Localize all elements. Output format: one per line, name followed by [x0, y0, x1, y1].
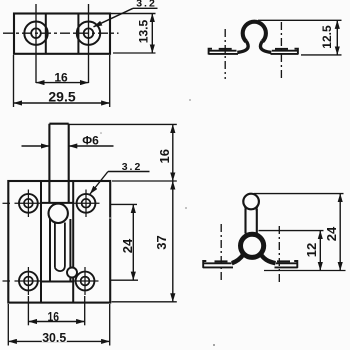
body left flange bottom	[203, 266, 233, 268]
dimension 29.5 (overall width)	[14, 102, 110, 104]
body left flange countersink mark	[215, 260, 228, 262]
right flange top line	[272, 50, 298, 52]
keeper hole 2 inner	[84, 28, 94, 38]
body right flange countersink mark	[277, 260, 290, 262]
body right hole centerline	[278, 226, 280, 284]
svg-text:12.5: 12.5	[320, 25, 334, 49]
hole BL crosshair vertical	[27, 267, 29, 295]
right flange end lip	[295, 49, 298, 55]
top holes centerline stub left	[3, 202, 11, 204]
guide slot left edge	[54, 223, 56, 268]
guide slot right edge	[64, 223, 66, 267]
extension line top for 12.5	[258, 19, 342, 21]
scan noise dots	[109, 217, 111, 219]
screw hole TL outer	[19, 194, 38, 213]
omega ring (bolt cross-section in guide)	[241, 234, 264, 257]
bolt pin circle	[67, 268, 77, 278]
dimension 16 (stem height)	[172, 124, 174, 181]
left flange countersink mark	[219, 48, 232, 50]
extension line plate left down	[7, 304, 9, 346]
extension line stem base	[259, 230, 324, 232]
svg-text:16: 16	[157, 149, 172, 163]
svg-text:13.5: 13.5	[137, 19, 151, 43]
horizontal centerline	[3, 32, 119, 34]
knob head circle	[243, 194, 259, 210]
extension line hole BR down	[84, 296, 86, 325]
omega right leg	[260, 254, 275, 264]
screw hole BL outer	[19, 272, 38, 291]
dimension 16 (hole spacing)	[36, 82, 89, 84]
bolt bottom edge	[41, 280, 73, 282]
keeper hole 1 inner	[31, 28, 41, 38]
bottom holes centerline stub left	[3, 280, 11, 282]
extension line right edge	[109, 55, 111, 107]
hole 2 vertical centerline	[88, 4, 90, 83]
3.2 underline	[108, 171, 150, 173]
svg-text:37: 37	[154, 235, 169, 249]
knob stem right edge	[256, 209, 258, 234]
hole BL crosshair horizontal	[15, 280, 41, 282]
knob circle	[49, 204, 68, 223]
svg-text:16: 16	[54, 71, 68, 85]
3.2 leader arrow	[90, 172, 108, 195]
dimension 13.5 (plate height)	[151, 14, 153, 54]
right flange countersink mark	[275, 48, 288, 50]
channel right edge	[72, 181, 74, 303]
right flange bottom line	[271, 53, 299, 55]
body plate outline	[8, 181, 110, 303]
keeper plate outline	[14, 14, 110, 54]
svg-text:12: 12	[304, 243, 319, 257]
hole BR crosshair vertical	[84, 267, 86, 295]
dimension phi6 right arrow	[69, 145, 114, 147]
svg-text:30.5: 30.5	[42, 330, 66, 345]
svg-text:Φ6: Φ6	[82, 133, 99, 147]
channel left edge	[40, 181, 42, 303]
extension line knob top	[254, 193, 344, 195]
bolt body left edge	[49, 219, 51, 282]
keeper bridge left edge	[45, 14, 47, 54]
screw hole TR inner	[82, 199, 91, 208]
extension line bottom holes right	[111, 279, 138, 281]
hole BR crosshair horizontal	[74, 280, 99, 282]
keeper bridge right edge	[77, 14, 79, 54]
screw hole TL inner	[24, 199, 33, 208]
extension line top for 13.5	[110, 13, 156, 15]
body right flange lip	[294, 261, 297, 268]
body right flange top	[276, 262, 298, 264]
bolt stem right edge	[68, 124, 70, 203]
keeper bump inner contour	[237, 41, 248, 52]
dimension 24 (knob height)	[339, 194, 341, 271]
extension line flange bottom right	[264, 270, 346, 272]
screw hole BR inner	[81, 277, 90, 286]
channel opening top edge	[41, 202, 73, 204]
keeper bump outer contour	[243, 22, 266, 42]
3.2 underline	[133, 7, 158, 9]
keeper left hole centerline	[224, 29, 226, 79]
extension line bottom for 13.5	[113, 52, 156, 54]
left flange end lip	[209, 49, 212, 55]
left flange bottom line	[209, 53, 239, 55]
dimension 12 (stem base height)	[319, 231, 321, 271]
knob neck taper right	[257, 205, 258, 210]
body right flange bottom	[275, 266, 298, 268]
knob neck taper left	[244, 205, 245, 210]
guide slot bottom edge	[55, 267, 65, 272]
svg-text:24: 24	[324, 226, 339, 241]
dimension phi6 left arrow	[22, 145, 50, 147]
svg-text:16: 16	[48, 309, 60, 324]
omega left leg	[232, 254, 244, 264]
extension line stem top	[69, 123, 177, 125]
dimension 12.5 (keeper height)	[336, 20, 338, 55]
body left flange top	[203, 262, 232, 264]
hole 1 vertical centerline	[35, 4, 37, 83]
bolt body right edge	[69, 219, 71, 282]
extension line left edge	[13, 55, 15, 107]
dimension 37 (body height)	[172, 181, 174, 302]
svg-text:24: 24	[120, 238, 135, 253]
body left hole centerline	[220, 224, 222, 283]
extension line top holes right	[111, 203, 137, 205]
3.2 leader arrow	[94, 8, 134, 27]
extension line plate bottom right	[112, 301, 177, 303]
hole TL crosshair vertical	[27, 190, 29, 218]
left flange top line	[209, 50, 237, 52]
knob stem left edge	[244, 209, 246, 234]
screw hole BL inner	[24, 277, 33, 286]
extension line bottom for 12.5	[301, 54, 342, 56]
bolt stem top edge	[49, 123, 68, 125]
bolt stem left edge	[48, 124, 50, 203]
body left flange lip	[203, 261, 206, 268]
dimension 16 (hole spacing horizontal)	[28, 321, 84, 323]
keeper hole 2 outer	[77, 22, 100, 45]
dimension 30.5 (body width)	[8, 340, 109, 342]
hole TR crosshair vertical	[85, 190, 87, 218]
keeper right hole centerline	[280, 22, 282, 81]
hole TL crosshair horizontal	[15, 202, 41, 204]
dimension 24 (hole spacing vertical)	[132, 204, 134, 280]
screw hole BR outer	[76, 272, 95, 291]
extension line plate top right	[112, 180, 177, 182]
svg-text:29.5: 29.5	[48, 88, 75, 104]
extension line plate right down	[109, 304, 111, 346]
extension line hole BL down	[27, 296, 29, 325]
screw hole TR outer	[77, 194, 96, 213]
keeper hole 1 outer	[24, 22, 47, 45]
hole TR crosshair horizontal	[74, 202, 100, 204]
